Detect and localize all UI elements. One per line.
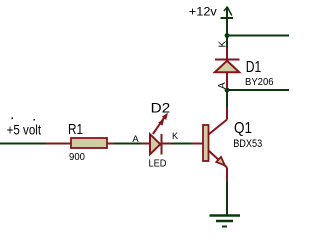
svg-text:+5 volt: +5 volt xyxy=(7,122,42,138)
svg-text:Q1: Q1 xyxy=(234,120,252,137)
svg-text:D1: D1 xyxy=(246,59,261,76)
svg-text:BY206: BY206 xyxy=(245,77,274,88)
svg-text:A: A xyxy=(132,134,139,145)
svg-text:R1: R1 xyxy=(68,122,83,138)
svg-text:900: 900 xyxy=(69,151,85,163)
svg-text:K: K xyxy=(218,41,229,48)
svg-text:D2: D2 xyxy=(151,99,171,115)
svg-text:+12v: +12v xyxy=(189,4,217,18)
svg-text:BDX53: BDX53 xyxy=(233,138,262,150)
svg-text:A: A xyxy=(217,82,228,89)
svg-text:LED: LED xyxy=(149,157,167,169)
svg-text:K: K xyxy=(172,131,178,141)
